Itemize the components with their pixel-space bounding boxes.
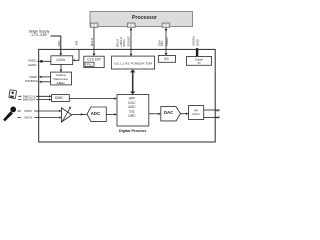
svg-text:DRC: DRC bbox=[128, 114, 136, 118]
wire HPR output bbox=[204, 116, 219, 118]
wire digital process to DAC bbox=[149, 113, 161, 115]
svg-text:HPL: HPL bbox=[216, 108, 220, 112]
svg-text:Processor: Processor bbox=[132, 15, 157, 21]
svg-text:EN: EN bbox=[75, 41, 79, 45]
svg-text:SDOUT: SDOUT bbox=[126, 36, 130, 47]
wire ADC to digital process bbox=[106, 113, 117, 115]
wire serial audio processor to I2S (bidirectional) bbox=[130, 28, 133, 56]
pin labels AVDD AGND bbox=[28, 59, 38, 67]
pin stub into digital IO bbox=[196, 48, 198, 57]
svg-text:Driver: Driver bbox=[193, 112, 200, 116]
svg-text:DAC: DAC bbox=[164, 110, 174, 115]
svg-text:IO: IO bbox=[198, 61, 201, 65]
wire DMIC to digital process bbox=[69, 97, 117, 99]
pin labels BCLK LRCLK SDIN SDOUT bbox=[116, 36, 131, 47]
wire PGA to ADC bbox=[72, 113, 87, 115]
svg-text:VDD: VDD bbox=[57, 40, 61, 47]
processor pin 3 bbox=[162, 23, 170, 27]
svg-text:1.7V–3.6V: 1.7V–3.6V bbox=[31, 33, 48, 37]
PGA amplifier bbox=[61, 106, 71, 122]
svg-text:I2S, LJ, RJ, PCM/DSP, TDM: I2S, LJ, RJ, PCM/DSP, TDM bbox=[114, 61, 152, 65]
svg-text:GND: GND bbox=[196, 38, 200, 46]
DMIC block bbox=[52, 95, 70, 102]
single supply label bbox=[29, 29, 50, 37]
LDOs block bbox=[51, 56, 73, 65]
svg-text:MICP: MICP bbox=[24, 109, 32, 113]
wire MICP bbox=[17, 110, 61, 112]
pin labels SDA SCL ADDR bbox=[157, 37, 169, 46]
svg-text:Digital Process: Digital Process bbox=[119, 129, 146, 133]
wire DAC to HP driver bbox=[180, 113, 188, 115]
svg-text:PLL: PLL bbox=[87, 62, 93, 66]
wire serial interface to digital process (bidirectional thick) bbox=[130, 69, 135, 94]
processor pin 1 bbox=[90, 23, 98, 27]
svg-text:AGND: AGND bbox=[28, 63, 38, 67]
I2C block bbox=[158, 56, 175, 63]
wire MCLK processor to clock bbox=[93, 28, 96, 57]
ADC converter bbox=[87, 107, 106, 121]
analog reference block bbox=[51, 72, 72, 85]
wire MICBIAS output bbox=[39, 81, 51, 83]
wire AVDD into LDOs bbox=[37, 60, 51, 62]
DAC converter bbox=[161, 107, 181, 121]
svg-text:HPF: HPF bbox=[129, 96, 136, 100]
svg-text:EQ: EQ bbox=[130, 109, 135, 113]
processor U1 bbox=[90, 12, 193, 27]
svg-text:DMICDAT: DMICDAT bbox=[23, 98, 36, 102]
codec chip outline bbox=[39, 49, 216, 142]
PLL block bbox=[85, 62, 94, 66]
svg-text:I2C: I2C bbox=[164, 57, 170, 61]
svg-text:HPR: HPR bbox=[216, 116, 220, 120]
svg-text:Digital: Digital bbox=[195, 57, 203, 61]
wire I2C processor to I2C block (bidirectional) bbox=[165, 28, 168, 56]
svg-text:CLK DIV: CLK DIV bbox=[87, 58, 101, 62]
svg-text:SCL: SCL bbox=[160, 40, 164, 46]
svg-text:ADDR: ADDR bbox=[165, 37, 169, 46]
wire MICN bbox=[17, 116, 61, 118]
wire single supply to VDD pin bbox=[51, 36, 63, 56]
serial audio interface block bbox=[111, 56, 154, 69]
wire DMICDAT bbox=[18, 98, 51, 100]
svg-text:MCLK: MCLK bbox=[90, 38, 94, 46]
digital mic icon bbox=[9, 90, 17, 99]
svg-text:MICBIAS: MICBIAS bbox=[25, 79, 37, 83]
wire HPL output bbox=[204, 109, 219, 111]
digital process block bbox=[117, 95, 149, 127]
digital IO block bbox=[187, 57, 212, 66]
wire DMICCLK bbox=[18, 95, 51, 97]
HP driver block bbox=[189, 106, 204, 120]
analog mic icon bbox=[3, 107, 16, 122]
processor pin 2 bbox=[127, 23, 135, 27]
svg-text:DMIC: DMIC bbox=[55, 96, 64, 100]
svg-text:HP: HP bbox=[194, 108, 198, 112]
svg-text:MICN: MICN bbox=[24, 116, 32, 120]
wire EN into LDOs bbox=[73, 49, 79, 61]
pin labels VDDIO GND bbox=[191, 36, 199, 46]
svg-text:LDOs: LDOs bbox=[56, 58, 65, 62]
wire LDOs to analog reference bbox=[60, 65, 63, 73]
svg-text:&Bias: &Bias bbox=[57, 81, 66, 85]
wire VREF output bbox=[39, 76, 51, 78]
svg-text:ADC: ADC bbox=[91, 111, 101, 116]
clock block CLK DIV bbox=[84, 56, 104, 67]
